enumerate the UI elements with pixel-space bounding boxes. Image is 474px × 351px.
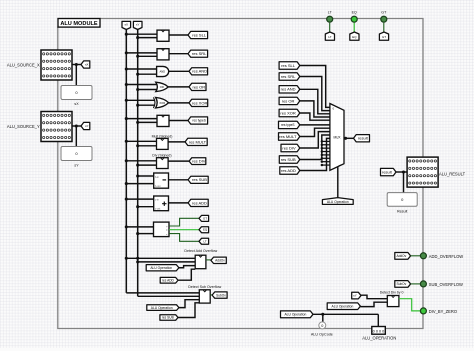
junction [136, 88, 139, 91]
svg-text:SubOv: SubOv [396, 282, 406, 286]
svg-text:sX: sX [74, 102, 79, 106]
tunnel res typeS [279, 121, 300, 128]
junction [125, 225, 128, 228]
svg-text:OR: OR [160, 85, 164, 89]
svg-text:res ADD: res ADD [281, 168, 296, 173]
wire res ADD out [169, 202, 189, 204]
svg-text:res typeS: res typeS [192, 119, 205, 123]
svg-text:EQ: EQ [352, 35, 357, 39]
junction [136, 164, 139, 167]
svg-text:GT: GT [382, 35, 386, 39]
svg-text:0 0 0 0: 0 0 0 0 [373, 329, 385, 333]
wire to opcode probe [322, 314, 324, 322]
junction [136, 55, 139, 58]
tunnel res DIV [189, 158, 206, 165]
wire LT [169, 234, 199, 242]
svg-text:ALU_RESULT: ALU_RESULT [439, 171, 466, 176]
wire sX branch [126, 33, 157, 35]
junction mux output [344, 137, 347, 140]
svg-text:ADD_OVERFLOW: ADD_OVERFLOW [429, 254, 463, 259]
svg-text:EQ: EQ [352, 10, 357, 14]
svg-text:res SRL: res SRL [281, 74, 296, 79]
junction [136, 121, 139, 124]
wire res MULT out [168, 141, 185, 143]
wire res SLL out [169, 34, 188, 36]
svg-text:ALU MODULE: ALU MODULE [60, 21, 98, 27]
pin EQ circle [351, 16, 357, 22]
junction [136, 174, 139, 177]
junction [136, 260, 139, 263]
wire SubOv out [210, 294, 212, 296]
svg-text:b-in: b-in [155, 176, 160, 179]
wire sY branch [138, 73, 157, 75]
svg-text:res XOR: res XOR [280, 110, 295, 115]
wire EQ [353, 23, 355, 32]
svg-text:Result: Result [397, 209, 407, 213]
svg-text:res OR: res OR [193, 84, 206, 89]
wire res SUB to mux [300, 135, 330, 160]
output pin ALU_RESULT [407, 157, 438, 187]
tunnel SubOv [212, 292, 227, 298]
tunnel res XOR (mux) [279, 109, 300, 116]
junction [125, 257, 128, 260]
junction sX [75, 63, 78, 66]
pin DIV_BY_ZERO circle [420, 308, 426, 314]
wire sY pin to tunnel [72, 125, 81, 127]
junction [125, 33, 128, 36]
svg-text:res OR: res OR [282, 98, 295, 103]
svg-text:MUX: MUX [333, 135, 341, 139]
wire to probe sY [75, 126, 77, 147]
wire res SLL to mux [300, 66, 330, 108]
svg-text:sY: sY [136, 23, 140, 27]
tunnel res ADD [188, 199, 208, 206]
wire sX branch [126, 84, 157, 86]
svg-text:LT: LT [328, 35, 331, 39]
tunnel sY top [133, 21, 142, 29]
wire res OR to mux [300, 101, 330, 117]
tunnel res SRL [188, 50, 208, 57]
tunnel res XOR [189, 99, 208, 106]
tunnel LT [199, 238, 209, 244]
junction sY [75, 124, 78, 127]
svg-text:LT: LT [203, 239, 206, 243]
svg-text:res AND: res AND [281, 87, 296, 92]
svg-text:c-out: c-out [155, 208, 161, 211]
wire sY branch [138, 233, 154, 235]
svg-text:XOR: XOR [159, 101, 165, 105]
probe Result [387, 193, 417, 207]
ALU MODULE selection border [58, 19, 423, 329]
wire res SUB out [169, 179, 189, 181]
svg-text:sX: sX [125, 23, 129, 27]
tunnel GT [199, 215, 209, 221]
wire sY branch [138, 206, 154, 208]
pin LT circle [327, 16, 333, 22]
svg-text:res SUB: res SUB [192, 177, 207, 182]
wire opcode to pin [377, 314, 379, 326]
wire sX branch [126, 52, 157, 54]
wire res XOR to mux [300, 113, 330, 120]
tunnel LT top [325, 32, 334, 40]
pin GT circle [381, 16, 387, 22]
tunnel EQ [199, 227, 209, 233]
wire sX pin to tunnel [72, 64, 81, 66]
svg-text:GT: GT [381, 10, 387, 14]
wire res AND to mux [300, 89, 330, 114]
junction [125, 117, 128, 120]
wire res typeS out [169, 120, 188, 122]
tunnel ALU Operation [281, 311, 314, 318]
wire sY to add-overflow [138, 261, 196, 263]
pin ADD_OVERFLOW circle [420, 253, 426, 259]
tunnel ALU Operation (sub ovf) [147, 305, 179, 311]
wire sX to sub-overflow [126, 292, 199, 294]
svg-text:SubOv: SubOv [216, 293, 226, 297]
tunnel sY [81, 122, 90, 129]
svg-text:res typeS: res typeS [281, 123, 294, 127]
wire ALU Operation to sub-overflow [179, 300, 199, 308]
tunnel ALU Operation (add ovf) [146, 265, 179, 271]
svg-text:AddOv: AddOv [396, 254, 406, 258]
tunnel res ADD (add ovf) [160, 277, 178, 283]
junction [125, 198, 128, 201]
svg-text:res DIV: res DIV [282, 145, 296, 150]
svg-text:result: result [358, 136, 369, 141]
svg-text:ALU Operation: ALU Operation [150, 266, 172, 270]
wire sY branch [138, 164, 157, 166]
svg-text:Detect Div by 0: Detect Div by 0 [380, 291, 404, 295]
wire res DIV out [168, 160, 189, 162]
tunnel ALU Operation (div0) [327, 303, 360, 310]
svg-text:Mult (Signed): Mult (Signed) [152, 134, 173, 138]
svg-text:GT: GT [203, 216, 207, 220]
tunnel sX top [122, 21, 131, 29]
svg-text:c-in: c-in [155, 199, 160, 202]
svg-text:0: 0 [321, 324, 323, 328]
svg-text:res ADD: res ADD [162, 278, 175, 282]
svg-text:Detect Add Overflow: Detect Add Overflow [184, 249, 217, 253]
wire sY branch [138, 175, 154, 177]
wire sX branch [126, 140, 156, 142]
svg-text:res SRL: res SRL [192, 51, 207, 56]
svg-text:ALU Operation: ALU Operation [284, 312, 306, 316]
bus sX vertical [125, 30, 127, 293]
tunnel AddOv (pin) [395, 253, 411, 260]
svg-text:EQ: EQ [203, 228, 208, 232]
tunnel sX [81, 61, 90, 68]
wire mux output [344, 137, 354, 139]
tunnel res DIV [281, 144, 300, 151]
wire sX branch [126, 68, 156, 70]
junction [125, 99, 128, 102]
tunnel res SLL (mux) [279, 62, 300, 69]
tunnel res SUB [188, 176, 208, 183]
wire sX to add-overflow [126, 257, 195, 259]
wire res AND out [169, 70, 190, 72]
wire ALU Operation to div0 [360, 302, 387, 306]
wire AddOv out [206, 259, 211, 261]
wire result to pin [396, 171, 407, 173]
svg-text:Detect Sub Overflow: Detect Sub Overflow [188, 285, 221, 289]
wire EQ [169, 229, 199, 231]
svg-text:ALU OpCode: ALU OpCode [311, 332, 333, 336]
svg-text:Div (Signed): Div (Signed) [152, 153, 171, 157]
junction [136, 257, 139, 260]
tunnel AddOv [211, 257, 226, 263]
junction [125, 159, 128, 162]
junction [125, 182, 128, 185]
junction [136, 232, 139, 235]
svg-text:ALU Operation: ALU Operation [151, 306, 173, 310]
wire res SRL out [169, 53, 188, 55]
tunnel res AND [189, 68, 208, 75]
wire res OR out [168, 86, 189, 88]
tunnel res SLL [188, 31, 208, 38]
tunnel res SUB (sub ovf) [160, 315, 178, 321]
input pin ALU_SOURCE_Y [41, 112, 72, 142]
wire opcode horizontal [313, 313, 378, 315]
junction [125, 140, 128, 143]
probe ALU OpCode [319, 322, 326, 329]
wire sX branch [126, 226, 153, 228]
tunnel res typeS [188, 117, 208, 124]
svg-text:DIV_BY_ZERO: DIV_BY_ZERO [429, 309, 457, 314]
tunnel res ADD [280, 167, 300, 174]
wire sY to div0 [361, 295, 387, 299]
wire LT [329, 23, 331, 32]
junction opcode [321, 313, 324, 316]
pin SUB_OVERFLOW circle [420, 281, 426, 287]
probe sX [61, 86, 92, 100]
wire GT [383, 23, 385, 32]
probe sY [61, 147, 92, 161]
tunnel res OR (mux) [279, 97, 300, 104]
svg-text:res SLL: res SLL [192, 32, 207, 37]
wire mux select [337, 167, 339, 198]
junction [136, 104, 139, 107]
junction [125, 67, 128, 70]
svg-text:res SUB: res SUB [162, 316, 174, 320]
svg-text:ALU_SOURCE_Y: ALU_SOURCE_Y [7, 124, 40, 129]
wire sX branch [126, 183, 153, 185]
wire res MULT to mux [300, 128, 330, 136]
svg-text:ALU_SOURCE_X: ALU_SOURCE_X [7, 62, 40, 67]
wire res ADD to add-overflow [178, 269, 195, 280]
svg-text:result: result [382, 169, 393, 174]
svg-text:sY: sY [85, 124, 88, 128]
wire res SRL to mux [300, 77, 330, 111]
wire sY branch [138, 145, 157, 147]
wire sX branch [126, 160, 156, 162]
tunnel res SUB [279, 156, 300, 163]
svg-text:res ADD: res ADD [192, 200, 207, 205]
tunnel res SRL (mux) [279, 73, 300, 80]
svg-text:sY: sY [353, 294, 357, 298]
wire res XOR out [169, 102, 190, 104]
svg-text:ALU Operation: ALU Operation [332, 304, 354, 308]
ALU MODULE label [58, 19, 100, 28]
svg-text:res XOR: res XOR [192, 100, 207, 105]
input pin ALU_SOURCE_X [41, 50, 72, 80]
wire sY branch [138, 104, 155, 106]
multiplexer MUX [330, 104, 344, 171]
wire sY branch [138, 89, 157, 91]
wire sY branch [138, 121, 157, 123]
tunnel SubOv (pin) [395, 281, 411, 288]
wire sX branch [126, 198, 153, 200]
svg-text:SUB_OVERFLOW: SUB_OVERFLOW [429, 282, 463, 287]
svg-text:res MULT: res MULT [279, 134, 297, 139]
input pin ALU_OPERATION [372, 327, 386, 335]
wire DIV_BY_ZERO [399, 299, 420, 311]
junction [136, 205, 139, 208]
junction [125, 83, 128, 86]
wire ALU Operation to add-overflow [179, 266, 195, 268]
wire result to probe [403, 172, 405, 193]
svg-text:res AND: res AND [192, 69, 207, 74]
tunnel res OR [189, 83, 206, 90]
tunnel GT top [379, 32, 388, 40]
wire sY branch [138, 55, 157, 57]
tunnel sY (div0) [352, 292, 361, 299]
tunnel res AND (mux) [279, 86, 300, 93]
svg-text:ALU Operation: ALU Operation [327, 200, 349, 204]
svg-text:AddOv: AddOv [215, 258, 225, 262]
wire AddOv to pin [411, 255, 420, 257]
svg-text:res SLL: res SLL [281, 63, 296, 68]
svg-text:b-out: b-out [155, 185, 161, 188]
wire res typeS to mux [300, 124, 330, 126]
tunnel result [381, 168, 397, 175]
wire res SUB to sub-overflow [178, 303, 199, 318]
junction result [402, 170, 405, 173]
wire res ADD to mux [300, 138, 330, 170]
svg-text:res DIV: res DIV [192, 159, 206, 164]
junction [136, 73, 139, 76]
wire sY branch [138, 37, 157, 39]
svg-text:sX: sX [85, 63, 88, 67]
tunnel res MULT [279, 133, 300, 140]
svg-text:AND: AND [159, 70, 165, 74]
wire sX branch [126, 118, 157, 120]
svg-text:res MULT: res MULT [189, 139, 207, 144]
svg-text:res SUB: res SUB [281, 157, 296, 162]
junction [125, 51, 128, 54]
wire sY to sub-overflow [138, 295, 200, 297]
tunnel res MULT [185, 138, 207, 145]
tunnel result (from mux) [354, 135, 370, 142]
wire sX branch [126, 99, 154, 101]
wire GT [169, 218, 199, 226]
svg-text:ALU_OPERATION: ALU_OPERATION [362, 336, 396, 341]
tunnel ALU Operation (mux select) [322, 198, 353, 205]
wire to probe sX [75, 65, 77, 86]
bus sY vertical [137, 30, 139, 297]
mux select tick [338, 165, 341, 167]
wire SubOv to pin [411, 283, 420, 285]
junction [136, 36, 139, 39]
junction [136, 144, 139, 147]
svg-text:sY: sY [74, 164, 79, 168]
mux unused input stubs [322, 140, 330, 142]
wire res DIV to mux [300, 132, 330, 148]
tunnel EQ top [350, 32, 359, 40]
